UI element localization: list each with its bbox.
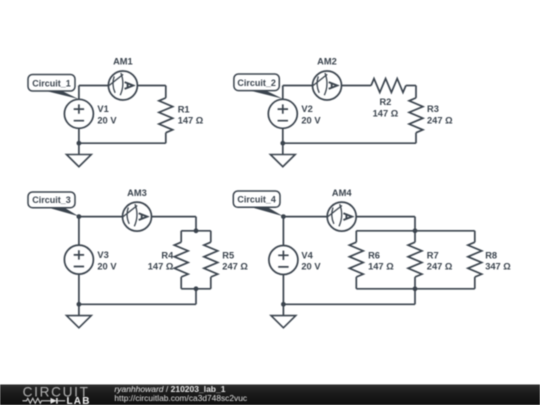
wire bbox=[79, 216, 123, 218]
svg-text:V1: V1 bbox=[97, 104, 108, 114]
svg-text:R1: R1 bbox=[178, 104, 190, 114]
svg-text:R5: R5 bbox=[222, 251, 234, 261]
resistor R1 bbox=[165, 86, 167, 98]
wire bbox=[282, 86, 284, 100]
resistor R8 bbox=[474, 231, 476, 242]
svg-text:147 Ω: 147 Ω bbox=[373, 109, 399, 119]
wire bbox=[137, 85, 165, 87]
svg-text:V4: V4 bbox=[301, 250, 313, 260]
wire bbox=[282, 275, 284, 305]
junction node bbox=[77, 214, 82, 219]
wire bbox=[406, 85, 416, 87]
svg-text:R2: R2 bbox=[379, 97, 391, 107]
wire bbox=[282, 217, 284, 246]
wire bbox=[356, 230, 475, 232]
junction node bbox=[281, 302, 286, 307]
svg-text:Circuit_3: Circuit_3 bbox=[32, 195, 71, 205]
svg-text:Circuit_1: Circuit_1 bbox=[32, 78, 71, 88]
svg-text:AM1: AM1 bbox=[113, 56, 133, 66]
ammeter AM2 bbox=[313, 71, 342, 100]
voltage source V4 bbox=[269, 246, 298, 275]
wire bbox=[195, 289, 197, 305]
junction node bbox=[413, 228, 418, 233]
svg-text:20 V: 20 V bbox=[97, 116, 117, 126]
callout label Circuit_3 bbox=[28, 192, 79, 216]
wire bbox=[283, 85, 313, 87]
resistor R3 bbox=[415, 86, 417, 98]
wire bbox=[181, 230, 211, 232]
ground bbox=[67, 143, 92, 167]
wire bbox=[356, 216, 415, 218]
wire bbox=[195, 217, 197, 231]
wire bbox=[78, 217, 80, 246]
svg-text:247 Ω: 247 Ω bbox=[222, 262, 248, 272]
svg-text:Circuit_2: Circuit_2 bbox=[237, 78, 276, 88]
svg-text:20 V: 20 V bbox=[301, 262, 321, 272]
junction node bbox=[77, 141, 82, 146]
junction node bbox=[281, 214, 286, 219]
junction node bbox=[280, 141, 285, 146]
svg-text:V3: V3 bbox=[97, 250, 108, 260]
logo resistor squiggle and diode bbox=[23, 398, 51, 403]
wire bbox=[283, 216, 327, 218]
wire bbox=[79, 142, 166, 144]
svg-text:R4: R4 bbox=[161, 251, 174, 261]
resistor R4 bbox=[180, 231, 182, 242]
svg-text:Circuit_4: Circuit_4 bbox=[237, 195, 276, 205]
svg-text:147 Ω: 147 Ω bbox=[148, 262, 174, 272]
wire bbox=[356, 288, 475, 290]
wire bbox=[79, 85, 109, 87]
wire bbox=[181, 288, 211, 290]
ground bbox=[270, 143, 295, 167]
callout label Circuit_4 bbox=[233, 191, 283, 216]
svg-text:20 V: 20 V bbox=[301, 116, 321, 126]
resistor R5 bbox=[210, 231, 212, 242]
ammeter AM3 bbox=[123, 202, 152, 231]
svg-text:R6: R6 bbox=[368, 251, 380, 261]
svg-text:20 V: 20 V bbox=[97, 261, 117, 271]
svg-text:AM2: AM2 bbox=[317, 56, 337, 66]
wire bbox=[78, 274, 80, 304]
svg-text:147 Ω: 147 Ω bbox=[178, 116, 204, 126]
callout label Circuit_1 bbox=[28, 75, 79, 100]
svg-text:V2: V2 bbox=[301, 104, 312, 114]
svg-text:R7: R7 bbox=[427, 251, 439, 261]
wire bbox=[152, 216, 197, 218]
junction node bbox=[77, 302, 82, 307]
svg-text:R3: R3 bbox=[427, 104, 439, 114]
svg-text:347 Ω: 347 Ω bbox=[485, 262, 511, 272]
wire bbox=[414, 289, 416, 305]
wire bbox=[342, 85, 372, 87]
svg-text:AM4: AM4 bbox=[332, 188, 352, 198]
wire bbox=[282, 128, 284, 143]
wire bbox=[79, 303, 196, 305]
voltage source V3 bbox=[64, 245, 93, 274]
svg-text:http://circuitlab.com/ca3d748s: http://circuitlab.com/ca3d748sc2vuc bbox=[114, 393, 247, 403]
wire bbox=[78, 128, 80, 143]
ground bbox=[271, 304, 296, 328]
wire bbox=[414, 217, 416, 231]
callout label Circuit_2 bbox=[234, 74, 283, 99]
junction node bbox=[194, 286, 199, 291]
svg-text:AM3: AM3 bbox=[127, 188, 147, 198]
svg-text:R8: R8 bbox=[485, 251, 497, 261]
wire bbox=[78, 86, 80, 100]
junction node bbox=[413, 286, 418, 291]
voltage source V2 bbox=[268, 99, 297, 128]
svg-text:247 Ω: 247 Ω bbox=[427, 115, 453, 125]
resistor R7 bbox=[414, 231, 416, 242]
resistor R2 bbox=[371, 79, 406, 93]
wire bbox=[283, 303, 415, 305]
resistor R6 bbox=[355, 231, 357, 242]
voltage source V1 bbox=[64, 99, 93, 128]
svg-text:247 Ω: 247 Ω bbox=[427, 262, 453, 272]
svg-text:147 Ω: 147 Ω bbox=[368, 262, 394, 272]
ground bbox=[67, 304, 92, 328]
ammeter AM4 bbox=[327, 202, 356, 231]
junction node bbox=[194, 228, 199, 233]
svg-text:LAB: LAB bbox=[67, 396, 91, 405]
ammeter AM1 bbox=[108, 71, 137, 100]
wire bbox=[283, 142, 416, 144]
